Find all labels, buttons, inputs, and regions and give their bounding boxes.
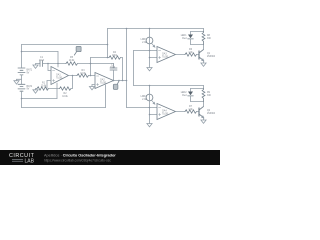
svg-text:R2: R2 — [64, 93, 68, 95]
wire: feedback top path — [91, 57, 110, 59]
wire: C2 top lead — [113, 64, 115, 69]
op-amp OA2 — [95, 73, 114, 89]
svg-text:TL081: TL081 — [162, 114, 169, 116]
svg-text:C1: C1 — [40, 57, 44, 59]
svg-text:https://www.circuitlab.com/c/8: https://www.circuitlab.com/c/8qr4e7/circ… — [44, 158, 111, 162]
svg-text:2N3904: 2N3904 — [207, 113, 216, 115]
capacitor C2 — [110, 68, 117, 70]
LED D1 — [188, 32, 194, 45]
svg-text:R1: R1 — [42, 83, 46, 85]
wire: Q2 emitter down — [203, 118, 205, 121]
wire: OA1 V+ stub — [57, 52, 59, 68]
wire: LDR2 to ground — [149, 101, 151, 124]
LDR1 arrow — [152, 43, 155, 46]
wire: LDR1 to ground — [149, 44, 151, 68]
wire: LED2 box bottom — [191, 101, 204, 103]
resistor R8 (vertical) — [202, 32, 205, 45]
ground: Q1 emitter — [201, 63, 206, 66]
wire: R4 right leg down to output — [121, 58, 123, 81]
wire: LDR2 top lead — [149, 86, 151, 95]
wire: between batteries — [21, 75, 23, 84]
component labels — [27, 35, 216, 116]
wire: R6 to Q1 base — [197, 54, 200, 56]
wire: Q1 emitter down — [203, 61, 205, 64]
wire: OA1 output — [69, 75, 78, 77]
ground: battery midpoint — [14, 79, 22, 84]
wire: R1 to R2 — [49, 88, 60, 90]
ground: LDR1 bottom — [147, 68, 152, 71]
wire: OA2 plus ground stub — [92, 85, 95, 87]
ground: Q2 emitter — [201, 120, 206, 123]
op-amp OA4 — [157, 104, 176, 120]
wire: lower minus wire — [127, 107, 158, 109]
wire: inner top rail (V+ rail) — [22, 51, 59, 53]
wire: C2 bottom lead — [113, 70, 115, 81]
svg-text:10uF: 10uF — [39, 60, 45, 62]
wire: upper plus wire — [150, 57, 158, 59]
transistor Q2 — [199, 107, 204, 118]
ground: R1 left — [33, 89, 38, 94]
svg-text:R7: R7 — [189, 106, 193, 108]
resistor R2 — [60, 87, 72, 90]
wire: link vertical x=133 — [133, 51, 135, 86]
svg-text:LAB: LAB — [25, 159, 35, 165]
svg-text:100k: 100k — [112, 55, 118, 57]
wire: OA2 minus node vertical — [90, 58, 92, 76]
svg-text:BAT2: BAT2 — [27, 85, 33, 88]
wire: R5 to OA2 minus vertical — [78, 63, 114, 65]
svg-text:OA2: OA2 — [100, 79, 105, 82]
svg-text:10uF: 10uF — [110, 67, 116, 69]
wire: LED box top — [191, 31, 204, 33]
svg-text:10.0k: 10.0k — [69, 60, 75, 62]
battery BAT1 — [18, 68, 25, 75]
wire: bus x=126 — [126, 29, 128, 108]
svg-text:9V: 9V — [27, 72, 30, 74]
svg-text:TL081: TL081 — [56, 78, 63, 80]
resistor R6 — [185, 53, 197, 56]
svg-text:LED1: LED1 — [181, 35, 187, 37]
wire: OA3 output — [176, 54, 186, 56]
LDR2 circle — [146, 94, 153, 101]
op-amp OA3 — [157, 47, 176, 63]
svg-text:Q2: Q2 — [207, 110, 211, 112]
svg-text:Q1: Q1 — [207, 53, 211, 55]
wire: OA1 plus input branch — [47, 81, 51, 89]
wire: left supply vertical top segment — [21, 45, 23, 68]
wire: R3 to OA2 minus — [89, 75, 96, 77]
LDR2 arrow — [152, 100, 155, 103]
wire: node line y=63 C1 to R5 — [43, 63, 67, 65]
footer bar — [0, 150, 220, 165]
resistor R3 — [77, 74, 89, 77]
svg-text:OA1: OA1 — [56, 74, 61, 77]
ground: OA2 plus — [89, 87, 94, 90]
ground: C1 left — [33, 64, 40, 69]
transistor Q1 — [199, 50, 204, 61]
wire: LED2 box top — [191, 88, 204, 90]
CircuitLab logo — [9, 153, 35, 164]
wire: OA1 minus input branch — [48, 64, 51, 71]
svg-text:BAT1: BAT1 — [27, 69, 33, 72]
resistor R9 (vertical) — [202, 89, 205, 102]
wire: top rail y=28 — [108, 28, 204, 30]
svg-text:Red: Red — [182, 38, 187, 40]
svg-text:9V: 9V — [27, 89, 30, 91]
wire: Q1 collector up — [203, 45, 205, 50]
wire: outer top rail — [22, 44, 108, 46]
resistor R4 — [109, 56, 121, 59]
battery BAT2 — [18, 84, 25, 91]
wire: inner bottom rail (V- rail) — [22, 98, 58, 100]
wire: OA1 V- stub — [56, 83, 58, 99]
wire: R7 to Q2 base — [197, 111, 200, 113]
wire: R2 to output branch — [71, 76, 73, 89]
LED D2 — [188, 89, 194, 102]
svg-text:330: 330 — [207, 38, 212, 40]
svg-text:R9: R9 — [207, 92, 211, 94]
svg-text:2N3904: 2N3904 — [207, 56, 216, 58]
wire: Q2 collector up — [203, 102, 205, 107]
svg-text:10.0k: 10.0k — [80, 73, 86, 75]
resistor R5 — [66, 62, 78, 65]
svg-text:OA3: OA3 — [162, 53, 167, 56]
svg-text:R4: R4 — [113, 52, 117, 54]
junction dots — [21, 28, 151, 116]
svg-text:LDR2: LDR2 — [141, 96, 148, 98]
probe flag A on OA2 output — [113, 81, 119, 89]
resistor R1 — [37, 87, 49, 90]
svg-text:R8: R8 — [207, 35, 211, 37]
wire: left supply vertical bottom segment — [21, 91, 23, 107]
svg-text:LED2: LED2 — [181, 92, 187, 94]
wire: OA2 V- stub — [105, 85, 107, 108]
svg-text:330: 330 — [207, 95, 212, 97]
ground: LDR2 bottom — [147, 124, 152, 127]
capacitor C1 — [40, 61, 43, 67]
probe flag B on top rail — [74, 46, 81, 55]
svg-text:Apellidos · Circuito Oscilador: Apellidos · Circuito Oscilador-Integrado… — [44, 154, 116, 158]
wire: x=107 vertical from top rail — [107, 29, 109, 58]
svg-text:R5: R5 — [70, 57, 74, 59]
wire: LED box bottom — [191, 44, 204, 46]
wire: lower rail into LED box — [203, 86, 205, 89]
LDR1 circle — [146, 37, 153, 44]
wire: upper minus wire — [134, 50, 158, 52]
svg-text:R3: R3 — [82, 70, 86, 72]
svg-text:LDR1: LDR1 — [141, 39, 148, 41]
svg-text:R6: R6 — [189, 49, 193, 51]
svg-text:10.0k: 10.0k — [62, 96, 68, 98]
wire: top rail into LED box — [203, 29, 205, 32]
wire: lower rail y=85 — [134, 85, 204, 87]
wire: lower plus wire — [150, 114, 158, 116]
svg-text:TL081: TL081 — [162, 57, 169, 59]
wire: OA2 output to bus — [114, 80, 127, 82]
svg-text:TL081: TL081 — [100, 83, 107, 85]
op-amp OA1 — [51, 67, 69, 85]
wire: OA4 output — [176, 111, 186, 113]
wire: LDR1 top lead — [149, 29, 151, 38]
svg-text:10.0k: 10.0k — [41, 85, 47, 87]
svg-text:Red: Red — [182, 95, 187, 97]
resistor R7 — [185, 110, 197, 113]
svg-text:OA4: OA4 — [162, 110, 167, 113]
wire: outer bottom rail — [22, 107, 106, 109]
